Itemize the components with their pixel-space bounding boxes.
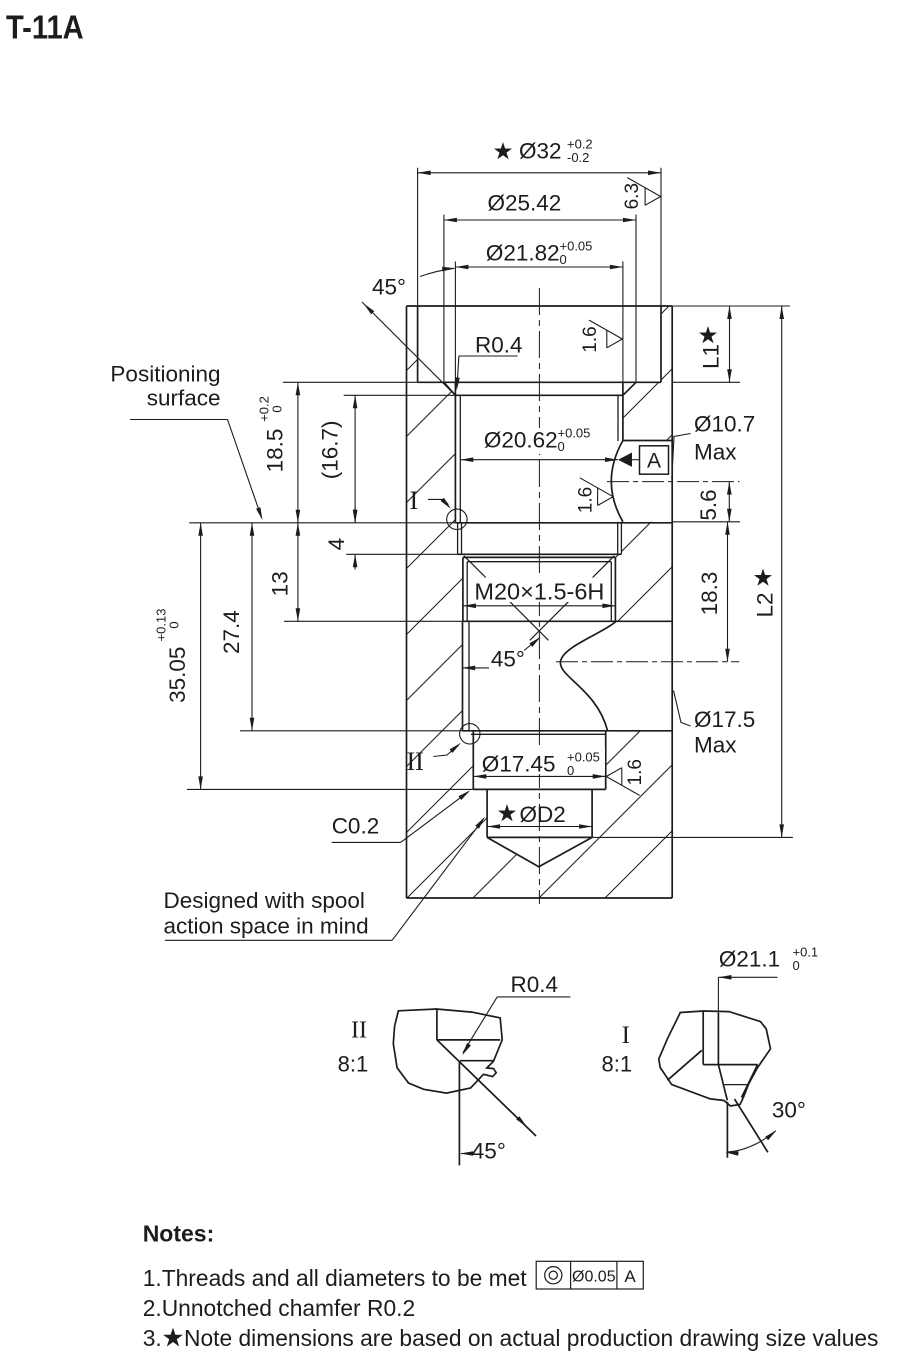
svg-text:Note dimensions are based on a: Note dimensions are based on actual prod…: [184, 1325, 878, 1351]
svg-text:Ø17.45: Ø17.45: [482, 752, 556, 777]
svg-text:L2: L2: [752, 592, 777, 617]
svg-text:6.3: 6.3: [622, 183, 643, 209]
svg-text:Ø10.7: Ø10.7: [694, 412, 755, 437]
svg-text:Ø32: Ø32: [519, 139, 562, 164]
svg-text:13: 13: [267, 571, 292, 596]
svg-text:T-11A: T-11A: [6, 9, 84, 46]
svg-text:II: II: [351, 1018, 367, 1044]
svg-text:4: 4: [324, 538, 349, 551]
svg-text:0: 0: [167, 621, 182, 628]
svg-text:C0.2: C0.2: [332, 814, 380, 839]
svg-text:45°: 45°: [472, 1139, 506, 1164]
svg-text:Max: Max: [694, 733, 737, 758]
svg-text:L1: L1: [699, 344, 724, 369]
svg-text:0: 0: [793, 958, 800, 973]
svg-text:1.6: 1.6: [625, 759, 646, 785]
svg-text:35.05: 35.05: [165, 647, 190, 703]
svg-text:0: 0: [270, 405, 285, 412]
svg-text:1.6: 1.6: [580, 326, 601, 352]
svg-text:Designed with spool: Designed with spool: [164, 888, 365, 913]
svg-text:3.: 3.: [143, 1325, 162, 1351]
svg-text:surface: surface: [147, 386, 221, 411]
svg-text:Ø21.1: Ø21.1: [719, 947, 780, 972]
svg-text:ØD2: ØD2: [520, 802, 566, 827]
svg-text:Ø0.05: Ø0.05: [572, 1269, 616, 1286]
svg-text:I: I: [410, 486, 419, 515]
svg-text:Max: Max: [694, 440, 737, 465]
svg-text:R0.4: R0.4: [511, 972, 559, 997]
svg-text:Positioning: Positioning: [110, 362, 220, 387]
svg-text:30°: 30°: [772, 1098, 806, 1123]
svg-text:5.6: 5.6: [696, 489, 721, 520]
svg-text:-0.2: -0.2: [567, 150, 589, 165]
svg-text:(16.7): (16.7): [318, 421, 343, 480]
svg-text:0: 0: [558, 439, 565, 454]
svg-text:18.3: 18.3: [697, 572, 722, 616]
svg-text:2.Unnotched chamfer R0.2: 2.Unnotched chamfer R0.2: [143, 1295, 415, 1321]
svg-text:1.6: 1.6: [576, 487, 597, 513]
svg-text:M20×1.5-6H: M20×1.5-6H: [474, 579, 604, 605]
svg-text:Ø17.5: Ø17.5: [694, 707, 755, 732]
svg-text:A: A: [624, 1267, 636, 1286]
svg-text:18.5: 18.5: [263, 429, 288, 473]
svg-text:45°: 45°: [491, 647, 525, 672]
svg-text:8:1: 8:1: [602, 1052, 633, 1077]
svg-text:1.Threads and all diameters to: 1.Threads and all diameters to be met: [143, 1265, 528, 1291]
svg-text:R0.4: R0.4: [475, 333, 523, 358]
svg-text:A: A: [647, 450, 661, 473]
svg-text:Ø21.82: Ø21.82: [486, 241, 560, 266]
svg-text:0: 0: [560, 252, 567, 267]
svg-text:Notes:: Notes:: [143, 1221, 215, 1247]
svg-text:action space in mind: action space in mind: [164, 914, 369, 939]
svg-text:II: II: [407, 747, 424, 776]
svg-text:27.4: 27.4: [219, 610, 244, 654]
svg-text:0: 0: [567, 763, 574, 778]
svg-text:I: I: [622, 1022, 630, 1049]
svg-text:Ø20.62: Ø20.62: [484, 428, 558, 453]
svg-text:45°: 45°: [372, 275, 406, 300]
svg-text:8:1: 8:1: [338, 1052, 369, 1077]
svg-text:Ø25.42: Ø25.42: [488, 191, 562, 216]
